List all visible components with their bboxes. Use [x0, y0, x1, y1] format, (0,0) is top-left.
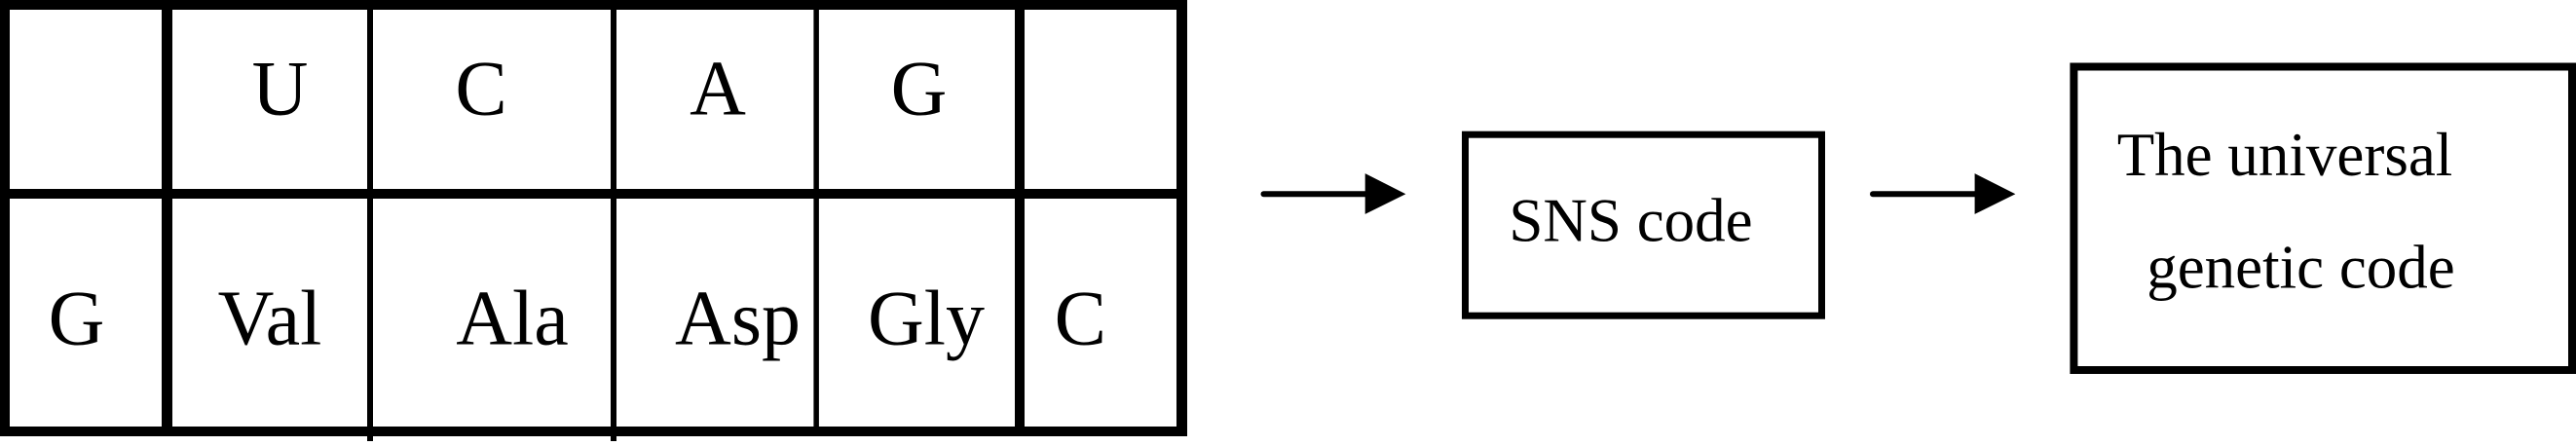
svg-text:C: C — [1055, 277, 1106, 362]
svg-text:genetic code: genetic code — [2147, 234, 2455, 302]
svg-text:Ala: Ala — [456, 277, 569, 362]
svg-text:G: G — [891, 47, 948, 132]
svg-text:U: U — [252, 47, 309, 132]
svg-text:The universal: The universal — [2117, 121, 2453, 189]
svg-text:SNS code: SNS code — [1509, 187, 1752, 255]
svg-text:G: G — [49, 277, 105, 362]
svg-text:A: A — [690, 47, 746, 132]
svg-text:C: C — [455, 47, 506, 132]
svg-text:Gly: Gly — [868, 277, 985, 362]
svg-text:Val: Val — [218, 277, 322, 362]
svg-text:Asp: Asp — [675, 277, 801, 362]
